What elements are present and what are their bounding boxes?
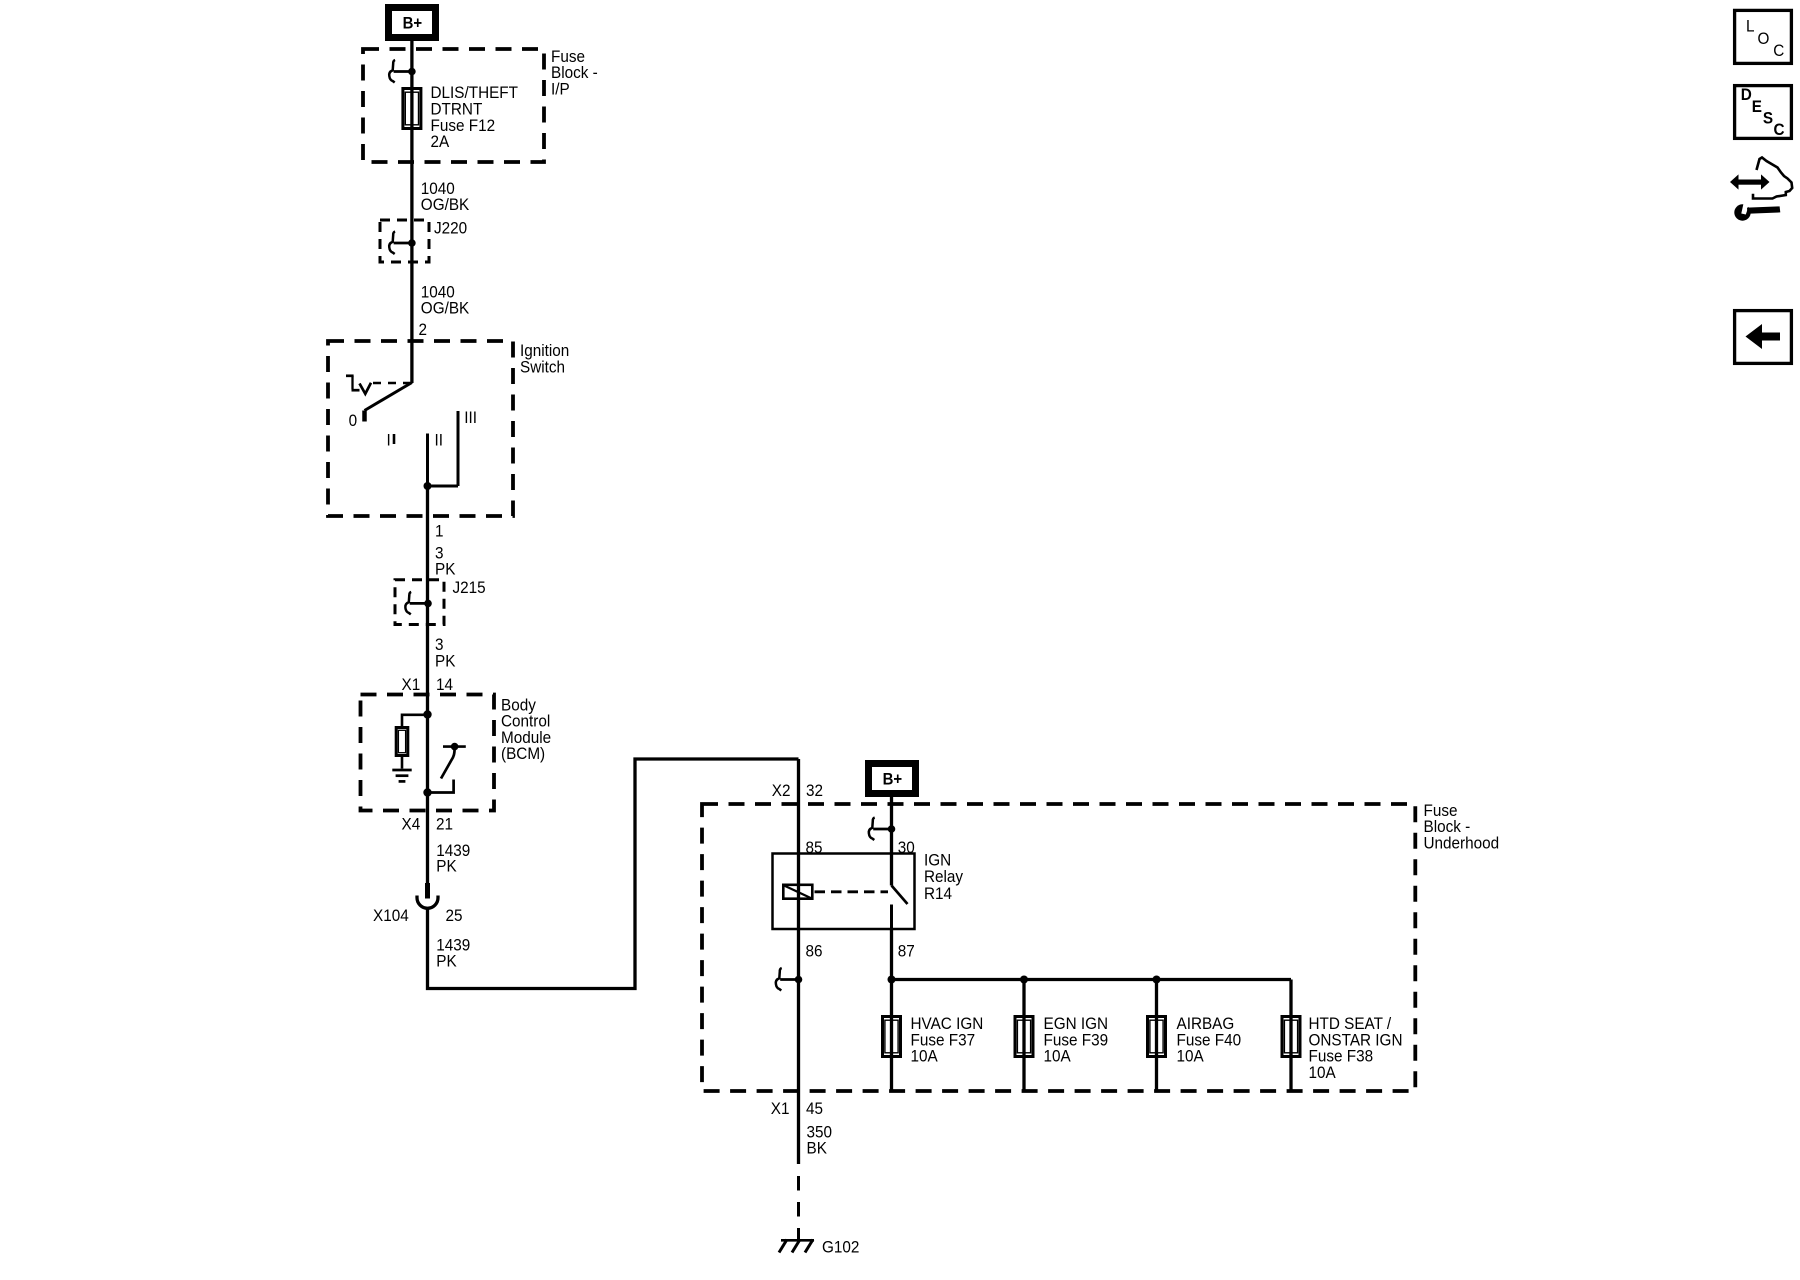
vehicle navigation icon (double arrow) xyxy=(1730,174,1770,189)
svg-text:R14: R14 xyxy=(924,884,952,903)
BCM switch blade xyxy=(441,748,455,779)
svg-text:86: 86 xyxy=(806,942,823,961)
BCM sense contact dot xyxy=(451,743,459,751)
svg-text:2A: 2A xyxy=(431,132,450,151)
svg-text:X104: X104 xyxy=(373,906,409,925)
B+ power symbol (relay feed) xyxy=(865,760,919,797)
svg-text:O: O xyxy=(1758,29,1770,48)
vehicle navigation icon (wrench) xyxy=(1734,203,1780,221)
svg-text:2: 2 xyxy=(419,320,428,339)
wire relay pin 85 drop xyxy=(797,759,800,1164)
detent dashed link xyxy=(373,382,410,384)
wire to fuse F40 xyxy=(1155,980,1158,1092)
svg-text:10A: 10A xyxy=(1309,1063,1336,1082)
wire label 1439 PK (lower) xyxy=(436,936,470,971)
wire B+ to relay pin 30 xyxy=(890,797,893,886)
fuse F37 xyxy=(883,1017,901,1057)
connector hook at B+ relay feed xyxy=(869,818,896,841)
position II contact wire xyxy=(426,434,429,487)
fuse F12 value label xyxy=(431,83,519,151)
relay fixed contact (pin 87) xyxy=(890,905,893,930)
ignition switch blade (to position 0) xyxy=(365,383,412,411)
Fuse Block - Underhood dashed box xyxy=(702,804,1415,1091)
svg-text:45: 45 xyxy=(806,1099,823,1118)
wire label 3 PK (lower) xyxy=(435,635,456,670)
junction dot bus at F40 xyxy=(1153,976,1161,984)
junction dot bus at F37 xyxy=(888,976,896,984)
Ignition Switch label xyxy=(520,341,569,376)
LOC button xyxy=(1735,10,1792,63)
vehicle navigation icon (car outline) xyxy=(1753,158,1792,199)
relay coil to contact dashed link xyxy=(815,890,889,893)
IGN Relay R14 label xyxy=(924,851,964,904)
BCM sense contact bar xyxy=(443,745,466,748)
connector X1 pin 14 labels xyxy=(402,675,454,694)
svg-text:E: E xyxy=(1752,97,1762,116)
svg-text:(BCM): (BCM) xyxy=(501,744,545,763)
wire label 1439 PK (upper) xyxy=(436,841,470,876)
connector hook J220 xyxy=(389,232,416,255)
Body Control Module dashed box xyxy=(361,695,495,811)
ground G102 symbol xyxy=(779,1240,814,1253)
svg-text:10A: 10A xyxy=(1177,1047,1204,1066)
wire B+ to ignition switch (through Fuse Block I/P and J220) xyxy=(410,41,413,383)
connector hook at relay pin 86 xyxy=(776,968,803,991)
wire to fuse F39 xyxy=(1022,980,1025,1092)
fuse F12 DLIS/THEFT DTRNT 2A xyxy=(403,89,421,129)
svg-text:Switch: Switch xyxy=(520,358,565,377)
wire ignition switch to BCM (through J215) xyxy=(426,486,429,883)
wire III to II junction xyxy=(428,485,459,488)
wire label 3 PK (upper) xyxy=(435,544,456,579)
back button xyxy=(1735,311,1792,364)
svg-text:L: L xyxy=(1746,17,1755,36)
svg-text:II: II xyxy=(435,431,443,450)
connector X104 labels xyxy=(373,906,463,925)
svg-text:BK: BK xyxy=(807,1139,828,1158)
svg-text:0: 0 xyxy=(349,411,358,430)
Fuse Block - I/P label xyxy=(551,47,598,99)
svg-text:J220: J220 xyxy=(434,219,467,238)
BCM switch throw wire xyxy=(428,780,454,793)
connector X1 pin 45 labels xyxy=(771,1099,823,1118)
fuse F37 label xyxy=(911,1014,984,1066)
junction dot bus at F39 xyxy=(1020,976,1028,984)
svg-text:21: 21 xyxy=(436,815,453,834)
wire label 350 BK xyxy=(807,1123,833,1158)
wire label 1040 OG/BK (lower) xyxy=(421,283,470,318)
svg-text:14: 14 xyxy=(436,675,453,694)
connector hook at fuse block feed xyxy=(389,60,416,83)
relay R14 box xyxy=(773,854,915,930)
relay coil xyxy=(783,885,812,899)
svg-text:C: C xyxy=(1774,120,1785,139)
fuse F40 label xyxy=(1177,1014,1242,1066)
svg-text:OG/BK: OG/BK xyxy=(421,299,470,318)
position III contact wire xyxy=(457,411,460,486)
ground (BCM internal) xyxy=(392,770,411,781)
svg-text:10A: 10A xyxy=(1044,1047,1071,1066)
dashed wire to ground G102 xyxy=(797,1176,800,1239)
svg-text:32: 32 xyxy=(806,781,823,800)
svg-text:C: C xyxy=(1773,41,1784,60)
fuse F38 label xyxy=(1309,1014,1403,1082)
splice J220 dashed box xyxy=(380,220,429,262)
DESC button xyxy=(1735,85,1792,139)
svg-text:25: 25 xyxy=(446,906,463,925)
ignition switch detent symbol xyxy=(346,376,371,394)
wire to pull-up resistor xyxy=(402,715,428,726)
svg-text:I: I xyxy=(387,431,391,450)
svg-text:III: III xyxy=(464,408,477,427)
svg-text:PK: PK xyxy=(436,952,457,971)
connector X104 (pin 25) xyxy=(417,883,438,908)
svg-text:PK: PK xyxy=(436,857,457,876)
svg-text:X1: X1 xyxy=(771,1099,790,1118)
svg-text:Underhood: Underhood xyxy=(1424,834,1500,853)
B+ power symbol (top) xyxy=(385,4,439,41)
splice J215 dashed box xyxy=(395,580,444,625)
svg-text:PK: PK xyxy=(435,560,456,579)
resistor (BCM pull-up) xyxy=(396,728,408,756)
Fuse Block - I/P dashed box xyxy=(363,49,544,162)
svg-text:J215: J215 xyxy=(453,578,486,597)
position 0 contact stub xyxy=(362,411,367,422)
wire to fuse F38 xyxy=(1289,980,1292,1092)
junction dot ignition output xyxy=(424,482,432,490)
wire to fuse F37 xyxy=(890,980,893,1092)
position I contact stub xyxy=(393,434,396,444)
fuse F39 xyxy=(1015,1017,1033,1057)
connector X2 pin 32 labels xyxy=(772,781,823,800)
Ignition Switch dashed box xyxy=(328,341,513,516)
svg-text:PK: PK xyxy=(435,652,456,671)
junction dot BCM input xyxy=(423,710,431,718)
fuse F38 xyxy=(1282,1017,1300,1057)
wire resistor to ground xyxy=(401,757,404,769)
BCM label xyxy=(501,696,551,764)
svg-text:G102: G102 xyxy=(822,1238,859,1257)
connector X4 pin 21 labels xyxy=(402,815,454,834)
fuse F39 label xyxy=(1044,1014,1109,1066)
wire relay pin 87 to fuse bus xyxy=(890,929,893,980)
Fuse Block - Underhood label xyxy=(1424,801,1500,853)
svg-text:X2: X2 xyxy=(772,781,791,800)
svg-text:X4: X4 xyxy=(402,815,421,834)
svg-text:X1: X1 xyxy=(402,675,421,694)
wire label 1040 OG/BK (upper) xyxy=(421,179,470,214)
fuse F40 xyxy=(1148,1017,1166,1057)
svg-text:10A: 10A xyxy=(911,1047,938,1066)
svg-text:I/P: I/P xyxy=(551,80,570,99)
svg-text:D: D xyxy=(1741,85,1752,104)
wire X104 to relay pin 85 xyxy=(428,759,799,989)
svg-text:S: S xyxy=(1763,109,1773,128)
relay switch blade xyxy=(892,886,908,905)
connector hook J215 xyxy=(405,592,432,615)
svg-text:1: 1 xyxy=(435,522,444,541)
svg-text:OG/BK: OG/BK xyxy=(421,195,470,214)
svg-text:87: 87 xyxy=(898,942,915,961)
junction dot BCM output xyxy=(423,788,431,796)
fuse bus wire xyxy=(892,978,1292,981)
